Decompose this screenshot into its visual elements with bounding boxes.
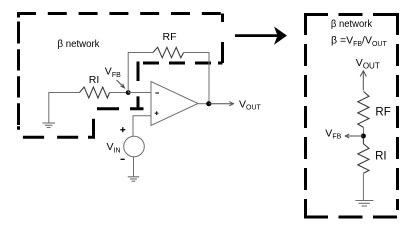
svg-text:RI: RI xyxy=(375,151,387,163)
resistor RI (right, vertical) xyxy=(358,139,369,174)
op-amp U1 xyxy=(151,82,198,126)
beta network dashed box (left) xyxy=(17,14,223,138)
ground (left box) xyxy=(43,123,56,128)
voltage source VIN (circle) xyxy=(124,136,145,157)
minus sign at VIN bottom xyxy=(121,158,125,160)
V_FB annotation arrow xyxy=(117,80,125,88)
svg-text:RF: RF xyxy=(163,31,177,43)
beta network dashed box (right) xyxy=(304,13,398,218)
svg-text:RI: RI xyxy=(89,74,100,86)
svg-text:β network: β network xyxy=(58,38,101,50)
output node (dot) xyxy=(206,101,211,106)
plus sign at VIN top xyxy=(120,127,125,132)
V_OUT arrow xyxy=(209,102,234,106)
wire node up to RF and over to output xyxy=(128,53,153,93)
resistor RI (left) xyxy=(80,87,110,98)
op-amp plus sign xyxy=(155,111,159,115)
ground (right box) xyxy=(355,201,373,207)
wire node to op-amp minus input xyxy=(128,92,151,94)
node VFB (dot) xyxy=(126,90,131,95)
op-amp minus sign xyxy=(155,92,159,94)
big arrow between circuits xyxy=(235,27,287,45)
resistor RF (right, vertical) xyxy=(358,92,369,128)
wire RF right, down to output node xyxy=(184,53,209,102)
wire VIN bottom to ground xyxy=(133,157,135,177)
left arrow to V_FB label xyxy=(345,134,363,138)
node V_FB (right, dot) xyxy=(361,134,366,139)
up arrow to V_OUT xyxy=(360,71,366,91)
wire op-amp plus input to VIN source xyxy=(133,116,151,136)
ground (VIN) xyxy=(128,177,140,181)
svg-text:β network: β network xyxy=(331,18,373,30)
wire RF to node xyxy=(363,128,365,137)
resistor RF (top) xyxy=(153,47,184,57)
wire op-amp output to node xyxy=(198,103,209,105)
wire RI to node VFB xyxy=(110,92,129,94)
wire RI to ground (right) xyxy=(362,173,364,200)
wire RI-left to ground corner xyxy=(49,93,80,123)
svg-text:RF: RF xyxy=(375,107,390,119)
